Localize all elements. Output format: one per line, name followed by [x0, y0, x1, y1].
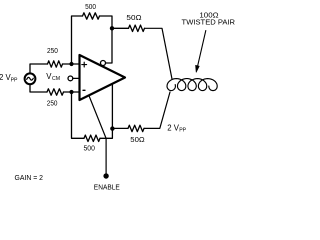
source sine symbol: [27, 77, 34, 80]
twisted pair coil: [167, 79, 217, 91]
node out+ junction dot: [110, 126, 114, 130]
wire inverted output to top node: [106, 28, 112, 63]
wire 50 ohm top to twisted pair: [145, 28, 173, 79]
resistor 500 top: [83, 13, 100, 19]
wire 500 bottom to node: [100, 129, 112, 139]
resistor 250 top: [48, 61, 63, 67]
node A junction dot: [69, 62, 73, 66]
svg-text:CM: CM: [52, 76, 60, 82]
wire enable diagonal: [89, 95, 107, 174]
resistor 250 bottom: [47, 89, 64, 95]
wire bottom node to 50 ohm: [112, 127, 128, 129]
VCM input bubble: [68, 76, 73, 81]
wire source bottom lead: [30, 84, 47, 92]
wire noninverted output to bottom node: [111, 84, 113, 128]
wire 500 top to node: [100, 16, 113, 28]
wire VCM bubble to amp: [73, 77, 80, 79]
wire source top lead: [30, 64, 48, 73]
op-amp U1: [80, 55, 126, 100]
wire bottom feedback loop: [72, 92, 85, 138]
output inversion bubble: [101, 61, 106, 66]
node out- junction dot: [110, 26, 114, 30]
resistor 50 ohm top: [129, 25, 145, 31]
svg-text:250: 250: [47, 99, 58, 108]
svg-text:PP: PP: [11, 78, 18, 84]
svg-text:50Ω: 50Ω: [126, 13, 142, 22]
svg-text:GAIN = 2: GAIN = 2: [15, 173, 44, 182]
minus input mark: [83, 89, 85, 91]
svg-text:500: 500: [85, 2, 96, 11]
source V1 circle: [25, 73, 36, 84]
node B junction dot: [69, 90, 73, 94]
plus input mark: [82, 62, 87, 67]
svg-text:TWISTED PAIR: TWISTED PAIR: [182, 17, 236, 26]
wire top 250 to amp: [63, 63, 80, 65]
svg-text:2 V: 2 V: [167, 123, 180, 132]
svg-text:500: 500: [84, 143, 95, 152]
wire top node to 50 ohm: [112, 27, 129, 29]
svg-text:50Ω: 50Ω: [130, 135, 145, 144]
resistor 50 ohm bottom: [128, 125, 144, 131]
resistor 500 bottom: [84, 135, 100, 141]
wire bottom 250 to amp: [64, 91, 80, 93]
wire top feedback loop: [72, 16, 83, 64]
svg-text:ENABLE: ENABLE: [94, 182, 120, 191]
wire 50 ohm bottom to twisted pair: [144, 92, 170, 128]
svg-text:250: 250: [47, 46, 58, 55]
arrow to twisted pair: [198, 31, 206, 67]
enable terminal dot: [103, 173, 108, 178]
svg-text:PP: PP: [179, 128, 186, 134]
